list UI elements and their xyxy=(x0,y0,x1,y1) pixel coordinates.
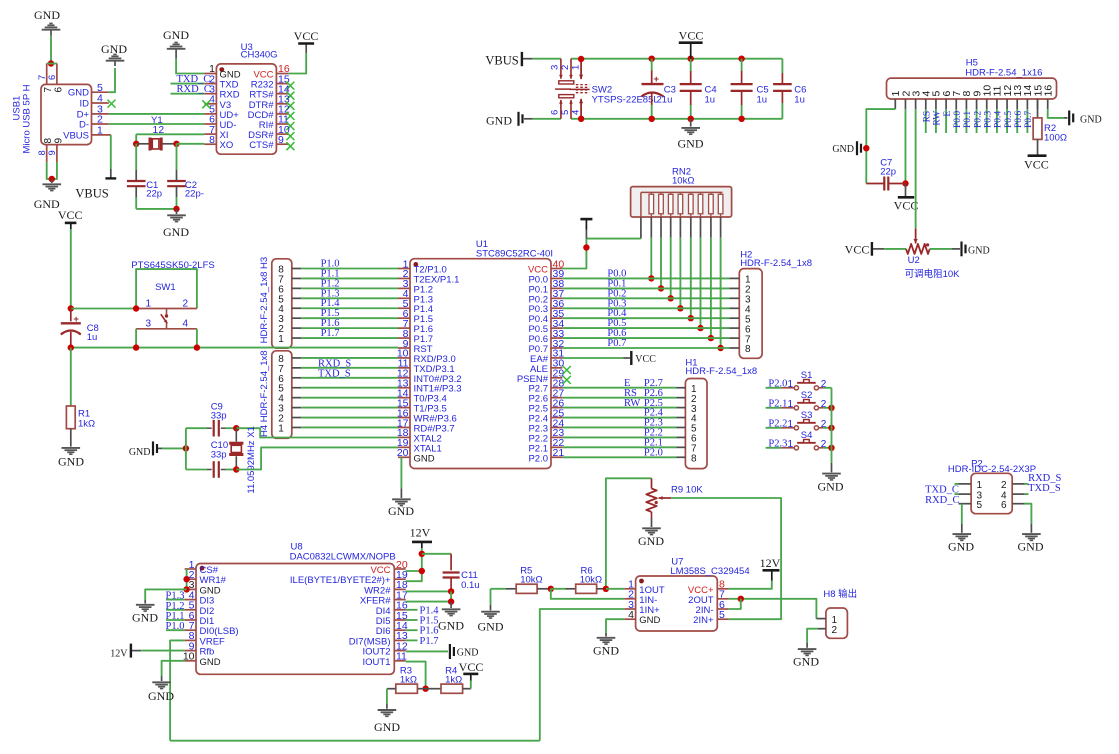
pin U1.24 P2.3 xyxy=(551,426,562,428)
pin RN2.2 xyxy=(650,217,652,238)
svg-text:VCC: VCC xyxy=(894,199,919,213)
node junction USB1 pins 7-6 xyxy=(48,60,54,66)
wire XO xyxy=(177,143,205,145)
connector USB1 Micro USB 5P H xyxy=(41,84,92,144)
wire P0.1 xyxy=(562,287,729,289)
capacitor C5 xyxy=(738,56,744,62)
svg-text:CH340G: CH340G xyxy=(241,50,278,61)
svg-text:7: 7 xyxy=(37,75,47,80)
svg-text:100Ω: 100Ω xyxy=(1044,133,1067,144)
power flag VCC (U3) xyxy=(305,44,307,53)
svg-text:5: 5 xyxy=(977,500,983,511)
wire U1 GND xyxy=(400,457,402,488)
svg-text:H4 HDR-F-2.54_1x8: H4 HDR-F-2.54_1x8 xyxy=(259,350,270,437)
svg-text:YTSPS-22E85L: YTSPS-22E85L xyxy=(592,94,659,105)
svg-text:33p: 33p xyxy=(211,410,227,421)
wire P1.2 xyxy=(166,609,185,611)
wire 12V to VCC+ xyxy=(729,581,772,589)
svg-text:2IN+: 2IN+ xyxy=(693,615,714,626)
svg-text:2: 2 xyxy=(560,65,571,70)
IC U8 DAC0832LCWMX/NOPB xyxy=(196,564,394,675)
node junction xyxy=(717,345,723,351)
pin H4.5 xyxy=(292,387,302,389)
pin H1.7 xyxy=(676,446,685,448)
wire CS/WR1/GND tie xyxy=(186,569,188,589)
svg-text:可调电阻10K: 可调电阻10K xyxy=(905,268,961,280)
pin H4.8 xyxy=(292,357,302,359)
svg-text:GND: GND xyxy=(832,144,854,155)
svg-text:8: 8 xyxy=(209,134,215,146)
wire 1OUT feedback to R9 xyxy=(606,478,652,589)
wire E xyxy=(945,109,947,133)
node junction USB shield xyxy=(49,176,55,182)
pin H5.7 xyxy=(955,99,957,109)
pin U8.9 Rfb xyxy=(185,650,196,652)
node junction xyxy=(668,295,674,301)
pin H2.8 xyxy=(729,347,739,349)
pin U1.37 P0.2 xyxy=(551,297,562,299)
node junction Y1 left xyxy=(133,141,139,147)
crystal X1 11.0592MHz xyxy=(235,428,237,441)
wire VBUS rail xyxy=(533,58,561,60)
wire to U7 pin1 xyxy=(606,588,624,590)
wire to C11 xyxy=(422,553,451,555)
pin U8.2 WR1# xyxy=(185,578,196,580)
node junction xyxy=(233,466,239,472)
svg-text:D-: D- xyxy=(79,120,89,131)
ground GND (buttons) xyxy=(831,463,833,472)
wire P2.1 xyxy=(562,446,676,448)
pin U7.7 2OUT xyxy=(717,598,728,600)
pin RN2.9 xyxy=(720,217,722,238)
wire xyxy=(386,689,388,704)
svg-text:GND: GND xyxy=(148,689,174,703)
node junction xyxy=(419,568,425,574)
ground GND (U7) xyxy=(605,633,607,637)
wire xyxy=(145,589,186,600)
pin RN2.6 xyxy=(690,217,692,238)
wire 2OUT to H8 xyxy=(729,599,817,619)
svg-text:P0.0: P0.0 xyxy=(953,111,963,128)
pin H2.7 xyxy=(729,337,739,339)
pin U1.5 P1.4 xyxy=(398,307,410,309)
pin U8.19 ILE(BYTE1/BYETE2#)+ xyxy=(394,578,405,580)
wire xyxy=(831,388,833,463)
no-connect X xyxy=(286,92,294,100)
pin U1.18 XTAL2 xyxy=(398,436,410,438)
wire RST xyxy=(71,347,398,349)
wire P2 pin6 GND xyxy=(1025,504,1032,524)
svg-text:SW1: SW1 xyxy=(155,282,176,293)
wire xyxy=(551,588,566,590)
wire P1.1 xyxy=(301,277,398,279)
svg-text:GND: GND xyxy=(486,114,512,128)
resistor R1 xyxy=(70,348,72,406)
svg-text:XO: XO xyxy=(220,140,234,151)
pin H2.6 xyxy=(729,327,739,329)
ground GND (U1) xyxy=(400,488,402,498)
pin U1.12 INT0#/P3.2 xyxy=(398,377,410,379)
pin U7.3 1IN+ xyxy=(624,608,635,610)
pin U1.1 T2/P1.0 xyxy=(398,268,410,270)
svg-text:Micro USB 5P H: Micro USB 5P H xyxy=(22,84,33,153)
wire TXD_C xyxy=(171,83,205,85)
svg-text:GND: GND xyxy=(34,8,60,22)
ground GND (R3) xyxy=(386,704,388,709)
svg-text:RW: RW xyxy=(624,398,640,409)
wire 2OUT to 2IN- xyxy=(729,599,741,609)
pin RN2.7 xyxy=(700,217,702,238)
power flag VCC (U1) xyxy=(585,230,587,239)
node junction xyxy=(194,344,200,350)
svg-text:GND: GND xyxy=(638,534,664,548)
svg-text:33p: 33p xyxy=(211,450,227,461)
ground GND (R5 input) xyxy=(490,589,492,605)
IC U7 LM358S xyxy=(636,576,718,631)
node junction xyxy=(648,275,654,281)
pin U3.7 XI xyxy=(204,133,216,135)
node junction xyxy=(738,596,744,602)
pin U8.1 CS# xyxy=(185,568,196,570)
pin U3.15 R232 xyxy=(276,83,288,85)
wire VBUS xyxy=(110,135,112,169)
wire xyxy=(301,397,398,399)
svg-text:1u: 1u xyxy=(705,94,716,105)
pin H2.1 xyxy=(729,277,739,279)
pin U3.10 DSR# xyxy=(276,133,288,135)
node junction xyxy=(233,425,239,431)
pin H5.8 xyxy=(965,99,967,109)
svg-text:4: 4 xyxy=(628,609,634,621)
pin U1.27 P2.6 xyxy=(551,397,562,399)
power flag GND (IOUT2) xyxy=(449,644,451,659)
no-connect X xyxy=(286,122,294,130)
pin USB1.2 D- xyxy=(92,123,109,125)
svg-text:22p: 22p xyxy=(880,167,896,178)
node junction xyxy=(68,305,74,311)
pin U1.23 P2.2 xyxy=(551,436,562,438)
capacitor C1 xyxy=(135,144,137,170)
pin U1.10 RXD/P3.0 xyxy=(398,357,410,359)
pin U1.15 T1/P3.5 xyxy=(398,407,410,409)
power flag VCC (EA#) xyxy=(623,357,630,359)
svg-text:0.1u: 0.1u xyxy=(461,580,480,591)
svg-text:VCC: VCC xyxy=(1024,158,1049,172)
pin H1.6 xyxy=(676,436,685,438)
pin U1.3 P1.2 xyxy=(398,287,410,289)
svg-text:12V: 12V xyxy=(760,556,781,570)
node junction xyxy=(68,344,74,350)
svg-text:16: 16 xyxy=(1043,85,1055,97)
switch SW2 YTSPS-22E85L xyxy=(560,59,562,79)
svg-text:1: 1 xyxy=(571,65,582,70)
svg-text:P0.5: P0.5 xyxy=(1004,111,1014,128)
wire P1.4 xyxy=(301,307,398,309)
no-connect X (U3 V3) xyxy=(202,100,210,108)
svg-text:5: 5 xyxy=(560,110,571,115)
wire XI xyxy=(136,133,204,135)
wire U3 VCC xyxy=(288,53,306,74)
pin U8.17 XFER# xyxy=(394,599,405,601)
node junction xyxy=(183,576,189,582)
svg-text:8: 8 xyxy=(745,344,751,355)
pin U3.9 CTS# xyxy=(276,143,288,145)
wire xyxy=(720,238,722,348)
pin U1.31 EA# xyxy=(551,357,562,359)
pin USB1.4 ID xyxy=(92,102,109,104)
svg-text:GND: GND xyxy=(374,720,400,734)
ground GND (U8 pin10) xyxy=(161,676,163,681)
pin U1.22 P2.1 xyxy=(551,446,562,448)
no-connect X (ID) xyxy=(108,100,116,108)
connector USB1 pin 7 xyxy=(46,64,48,85)
svg-text:P2.0: P2.0 xyxy=(644,447,663,458)
wire xyxy=(955,483,959,485)
pin U1.33 P0.6 xyxy=(551,337,562,339)
pin H5.14 xyxy=(1026,99,1028,109)
wire P1.3 xyxy=(166,599,185,601)
pin U8.20 VCC xyxy=(394,568,405,570)
pin U1.9 RST xyxy=(398,347,410,349)
wire xyxy=(185,428,187,469)
svg-text:GND: GND xyxy=(818,480,844,494)
svg-text:HDR-F-2.54_1x16: HDR-F-2.54_1x16 xyxy=(965,67,1042,78)
pin U3.16 VCC xyxy=(276,73,288,75)
svg-text:22p-: 22p- xyxy=(185,189,204,200)
wire RXD_S xyxy=(1025,483,1029,485)
wire xyxy=(470,681,472,689)
ground GND (crystal) xyxy=(176,209,178,214)
wire R9 wiper xyxy=(671,498,781,619)
pin USB1.3 D+ xyxy=(92,113,109,115)
wire U8 WR2# xyxy=(406,590,451,592)
power flag GND (H5 pin16) xyxy=(1064,117,1068,119)
svg-text:1: 1 xyxy=(146,298,152,309)
wire P2.2 xyxy=(562,436,676,438)
svg-text:IOUT1: IOUT1 xyxy=(363,657,391,668)
no-connect X (ALE) xyxy=(563,366,571,374)
pin H8.2 xyxy=(818,628,826,630)
pin U8.16 DI4 xyxy=(394,609,405,611)
pin H2.3 xyxy=(729,297,739,299)
pin U8.6 DI1 xyxy=(185,619,196,621)
pin U1.28 P2.7 xyxy=(551,387,562,389)
node junction xyxy=(422,686,428,692)
wire P0.2 xyxy=(976,109,978,133)
wire XTAL1 xyxy=(236,447,398,469)
ground GND (H8) xyxy=(806,643,808,648)
svg-text:9: 9 xyxy=(278,134,284,146)
svg-text:2: 2 xyxy=(183,298,189,309)
no-connect X xyxy=(286,112,294,120)
svg-text:P1.7: P1.7 xyxy=(321,328,340,339)
pin U1.8 P1.7 xyxy=(398,337,410,339)
wire P2.7 xyxy=(562,387,676,389)
wire xyxy=(301,377,398,379)
pin U1.20 GND xyxy=(398,456,410,458)
capacitor C11 xyxy=(450,554,452,571)
wire xyxy=(47,63,57,65)
pin U7.8 VCC+ xyxy=(717,588,728,590)
svg-text:2: 2 xyxy=(159,125,165,136)
pin H2.2 xyxy=(729,287,739,289)
pin U1.38 P0.1 xyxy=(551,287,562,289)
pin H5.1 xyxy=(894,99,896,109)
svg-text:1u: 1u xyxy=(794,94,805,105)
wire RN2 common to VCC xyxy=(586,238,641,240)
pin H5.4 xyxy=(925,99,927,109)
pin H4.7 xyxy=(292,367,302,369)
pin USB1.1 VBUS xyxy=(92,134,111,136)
pin H5.16 xyxy=(1047,99,1049,109)
pin H3.6 xyxy=(292,287,302,289)
wire xyxy=(50,36,52,64)
IC U3 CH340G xyxy=(216,64,276,154)
svg-text:GND: GND xyxy=(388,504,414,518)
connector H3 HDR-F-2.54 1x8 xyxy=(272,259,292,348)
svg-text:U2: U2 xyxy=(908,255,920,266)
svg-text:6: 6 xyxy=(47,75,57,80)
svg-text:P0.7: P0.7 xyxy=(607,338,626,349)
svg-text:4: 4 xyxy=(571,110,582,115)
wire P1.5 xyxy=(301,317,398,319)
svg-text:HDR-F-2.54_1x8: HDR-F-2.54_1x8 xyxy=(740,258,812,269)
node junction xyxy=(419,551,425,557)
wire P0.7 xyxy=(1026,109,1028,133)
pin U8.5 DI2 xyxy=(185,609,196,611)
wire P1.6 xyxy=(301,327,398,329)
no-connect X xyxy=(286,82,294,90)
pin U1.7 P1.6 xyxy=(398,327,410,329)
pin U7.1 1OUT xyxy=(624,588,635,590)
wire H5 pin2 to VCC xyxy=(904,109,906,183)
wire xyxy=(301,426,398,428)
node junction Y1 right xyxy=(173,141,179,147)
wire P0.4 xyxy=(562,317,729,319)
wire IOUT2 to GND xyxy=(406,650,448,652)
svg-text:GND: GND xyxy=(478,620,504,634)
wire 1IN+ from bottom xyxy=(540,609,625,741)
svg-text:+: + xyxy=(654,74,660,85)
svg-text:GND: GND xyxy=(132,611,158,625)
svg-text:VCC: VCC xyxy=(294,29,319,43)
svg-text:GND: GND xyxy=(793,655,819,669)
capacitor C2 xyxy=(176,144,178,170)
pin H5.9 xyxy=(976,99,978,109)
node junction xyxy=(133,344,139,350)
pin USB1.8 xyxy=(46,145,48,162)
svg-text:R9 10K: R9 10K xyxy=(671,484,703,495)
node junction xyxy=(658,285,664,291)
svg-text:P0.4: P0.4 xyxy=(994,111,1004,128)
pin H5.6 xyxy=(945,99,947,109)
node junction xyxy=(448,588,454,594)
svg-text:GND: GND xyxy=(948,540,974,554)
pin P2.2 xyxy=(1012,483,1025,485)
pin U1.14 T0/P3.4 xyxy=(398,397,410,399)
pin U1.25 P2.4 xyxy=(551,417,562,419)
pin U3.2 TXD xyxy=(204,83,216,85)
wire P1.0 xyxy=(166,629,185,631)
svg-text:RS: RS xyxy=(923,111,933,123)
ground GND (XFER) xyxy=(450,602,452,608)
node junction xyxy=(183,445,189,451)
pin H5.15 xyxy=(1037,99,1039,109)
svg-text:VCC: VCC xyxy=(459,660,484,674)
pin P2.4 xyxy=(1012,493,1025,495)
pin U8.18 WR2# xyxy=(394,588,405,590)
svg-text:GND: GND xyxy=(593,644,619,658)
wire P1.0 xyxy=(301,268,398,270)
pin H1.5 xyxy=(676,426,685,428)
pin U8.11 IOUT1 xyxy=(394,660,405,662)
pin U3.12 DCD# xyxy=(276,113,288,115)
pin H4.4 xyxy=(292,397,302,399)
svg-text:P0.2: P0.2 xyxy=(973,111,983,128)
svg-text:P0.3: P0.3 xyxy=(984,111,994,128)
wire xyxy=(301,387,398,389)
wire P1.2 xyxy=(301,287,398,289)
power flag GND (H5 pin1) xyxy=(857,141,861,155)
svg-text:GND: GND xyxy=(58,455,84,469)
wire P1.3 xyxy=(301,297,398,299)
wire U8 pin10 GND xyxy=(162,661,185,676)
wire P0.5 xyxy=(1006,109,1008,133)
wire R5/R6 node to 1IN- xyxy=(551,589,625,599)
pin H2.4 xyxy=(729,307,739,309)
svg-text:RW: RW xyxy=(933,111,943,126)
svg-text:8: 8 xyxy=(691,453,697,464)
resistor R2 xyxy=(1037,99,1039,118)
pin U3.1 GND xyxy=(204,73,216,75)
wire xyxy=(301,367,398,369)
pin H3.7 xyxy=(292,277,302,279)
pin P2.1 xyxy=(959,483,972,485)
pin RN2.8 xyxy=(710,217,712,238)
wire P0.7 xyxy=(562,347,729,349)
wire bottom feedback xyxy=(170,740,540,742)
svg-text:9: 9 xyxy=(47,150,57,155)
pin U8.15 DI5 xyxy=(394,619,405,621)
pin U3.14 RTS# xyxy=(276,93,288,95)
node junction xyxy=(583,244,589,250)
netport VBUS xyxy=(110,169,112,178)
pin U8.14 DI6 xyxy=(394,629,405,631)
wire XTAL2 xyxy=(236,428,398,437)
pin H5.2 xyxy=(904,99,906,109)
wire xyxy=(71,308,136,310)
svg-text:GND: GND xyxy=(163,28,189,42)
pin U1.35 P0.4 xyxy=(551,317,562,319)
pin H3.5 xyxy=(292,297,302,299)
wire xyxy=(70,229,72,309)
svg-text:E: E xyxy=(943,111,953,117)
wire P0.3 xyxy=(986,109,988,133)
wire P1.4 xyxy=(406,609,418,611)
connector H4 HDR-F-2.54 1x8 xyxy=(272,351,292,439)
pin H3.3 xyxy=(292,317,302,319)
svg-text:1u: 1u xyxy=(757,94,768,105)
wire H5 pin1 to GND xyxy=(866,109,895,183)
svg-text:P2.0: P2.0 xyxy=(528,453,548,464)
svg-text:8: 8 xyxy=(43,138,54,144)
pin H5.13 xyxy=(1016,99,1018,109)
pin H1.2 xyxy=(676,397,685,399)
svg-text:GND: GND xyxy=(639,615,660,626)
svg-text:HDR-F-2.54_1x8 H3: HDR-F-2.54_1x8 H3 xyxy=(259,257,270,344)
pin H1.1 xyxy=(676,387,685,389)
pin H4.3 xyxy=(292,407,302,409)
